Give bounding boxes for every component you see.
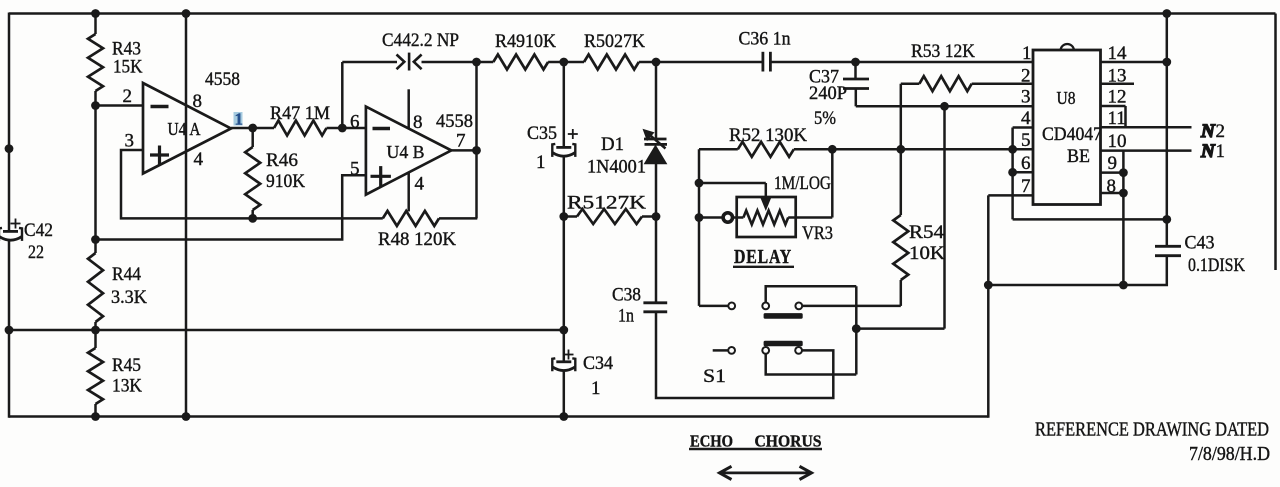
- junction U4A output node: [248, 124, 257, 133]
- junction R43 bottom / U4A pin2: [91, 101, 100, 110]
- junction U8 pin9 / right bus: [1119, 168, 1128, 177]
- label C35 plus: [568, 129, 578, 139]
- junction right bus / 285 rail: [1119, 281, 1128, 290]
- junction C37 top node: [851, 58, 860, 67]
- junction U8 pin8 / right bus: [1119, 189, 1128, 198]
- junction top bus / U4A rail: [182, 9, 191, 18]
- resistor R45: [88, 348, 103, 417]
- junction R43/R44 bias node: [91, 235, 100, 244]
- svg-text:240P: 240P: [809, 83, 847, 104]
- junction U4B pin6 node: [338, 124, 347, 133]
- svg-text:C36 1n: C36 1n: [739, 29, 791, 50]
- wire U8 pin12 stub: [1101, 106, 1126, 127]
- svg-text:5%: 5%: [814, 108, 836, 129]
- wire U8 pin5 stub: [1013, 148, 1033, 151]
- resistor R44: [88, 253, 103, 348]
- svg-text:2: 2: [1216, 121, 1226, 142]
- capacitor C43: [1155, 246, 1181, 255]
- label U4A pin3: [125, 130, 135, 151]
- svg-text:6: 6: [1021, 153, 1031, 174]
- capacitor C36: [763, 52, 771, 72]
- svg-text:C442.2 NP: C442.2 NP: [382, 30, 459, 51]
- svg-text:ECHO: ECHO: [690, 432, 733, 451]
- wire C36 to U8 pin1: [770, 61, 1033, 64]
- svg-text:CD4047: CD4047: [1042, 124, 1102, 145]
- svg-text:10: 10: [1108, 131, 1127, 152]
- svg-text:1N4001: 1N4001: [587, 157, 646, 178]
- label C38 1n: [612, 284, 641, 326]
- junction pin3 line / S1 drop: [940, 102, 949, 111]
- wire S1 top contact jumper: [766, 286, 857, 302]
- wire U4B pin5 bias: [96, 175, 366, 239]
- junction VR3 wiper tap: [695, 179, 704, 188]
- label U8 pin9: [1108, 153, 1118, 174]
- node N2 label: [1200, 121, 1225, 142]
- junction R46 bottom / feedback line: [248, 214, 257, 223]
- svg-text:0.1DISK: 0.1DISK: [1188, 255, 1245, 276]
- svg-text:15K: 15K: [113, 57, 143, 78]
- label 4558 (U4B): [436, 111, 473, 132]
- wire U4A pin2 input: [96, 104, 145, 107]
- svg-text:22: 22: [28, 242, 44, 263]
- junction R51 right / D1 rail: [652, 212, 661, 221]
- svg-text:910K: 910K: [266, 171, 305, 192]
- label D1 1N4001: [587, 157, 646, 178]
- switch S1 top throw contacts: [762, 303, 802, 319]
- svg-text:4: 4: [1021, 108, 1031, 129]
- junction group bus / C43 rail: [1162, 215, 1171, 224]
- wire VR3 left rail: [698, 149, 701, 306]
- wire top row to C36: [656, 61, 763, 64]
- junction C34 / bottom bus: [559, 412, 568, 421]
- label R49 10K: [495, 31, 556, 52]
- junction R44/R45 node: [91, 326, 100, 335]
- wire U8 pin14: [1101, 61, 1167, 64]
- wire U8 pins 10-9-8 bus: [1122, 151, 1125, 285]
- label reference drawing note: [1035, 420, 1270, 466]
- svg-text:8: 8: [413, 112, 423, 133]
- label R54 10K: [909, 222, 945, 264]
- svg-text:C43: C43: [1185, 233, 1215, 254]
- capacitor C34: [552, 358, 575, 371]
- svg-text:2: 2: [1021, 66, 1031, 87]
- wire U4B output: [451, 149, 476, 152]
- svg-text:C42: C42: [24, 220, 53, 241]
- svg-text:VR3: VR3: [802, 223, 833, 244]
- resistor R50: [564, 55, 656, 70]
- svg-text:4558: 4558: [205, 69, 240, 90]
- svg-text:9: 9: [1108, 153, 1118, 174]
- wire U8 pin7 drop: [987, 195, 990, 285]
- wire S1 riser x944: [943, 106, 946, 328]
- svg-text:3.3K: 3.3K: [111, 287, 147, 308]
- wire top supply bus: [9, 12, 1276, 15]
- node N1 label: [1200, 141, 1225, 162]
- label U4B pin5: [350, 159, 360, 180]
- junction U8 pin14 / C43 rail: [1162, 58, 1171, 67]
- label C42 22: [24, 220, 53, 263]
- resistor R49: [477, 55, 564, 70]
- junction top bus / R43: [91, 9, 100, 18]
- junction U8 pin5 / left bus: [1008, 145, 1017, 154]
- wire mid bias rail y330: [9, 329, 564, 332]
- wire U8 pin11 to N2: [1101, 126, 1192, 129]
- wire U4A power rail pin8/pin4: [185, 14, 188, 418]
- junction bias rail / C34 rail: [559, 326, 568, 335]
- wire U8 pin8 stub: [1101, 192, 1124, 195]
- capacitor C37: [843, 79, 869, 89]
- label U4A pin2: [123, 86, 133, 107]
- svg-text:C35: C35: [527, 123, 557, 144]
- svg-text:U4 B: U4 B: [387, 142, 425, 162]
- resistor R47: [274, 121, 366, 136]
- svg-text:5: 5: [1021, 130, 1031, 151]
- junction R51 left node: [559, 212, 568, 221]
- wire C44 left leg: [342, 62, 397, 128]
- svg-text:R46: R46: [266, 150, 298, 171]
- label U8 pin14: [1108, 43, 1128, 64]
- wire U4A output: [231, 127, 274, 130]
- label R45 13K: [112, 355, 142, 397]
- svg-text:7: 7: [456, 130, 466, 151]
- wire U8 left group bus: [1011, 128, 1014, 220]
- wire C43 rail upper: [1166, 14, 1169, 247]
- wire C38 bottom to switch: [656, 312, 833, 398]
- svg-text:BE: BE: [1067, 146, 1090, 167]
- resistor R53: [901, 76, 1033, 149]
- label U4B pin6: [350, 112, 360, 133]
- label U8 pin11: [1108, 108, 1126, 129]
- label C34 plus: [564, 350, 574, 360]
- label R51 27K: [567, 193, 646, 214]
- junction VR3 left terminal tap: [695, 213, 704, 222]
- svg-text:3: 3: [125, 130, 135, 151]
- wire C37 lower leg to U8 pin3: [856, 89, 1033, 107]
- resistor R51: [564, 209, 656, 224]
- svg-text:4: 4: [415, 174, 425, 195]
- resistor R46: [245, 128, 260, 219]
- junction R50 / D1 node: [652, 58, 661, 67]
- svg-text:R52 130K: R52 130K: [729, 125, 807, 146]
- svg-text:R54: R54: [909, 222, 945, 243]
- svg-text:R45: R45: [112, 355, 141, 376]
- resistor R52: [699, 142, 1011, 157]
- wire S1 top pole feed: [699, 305, 728, 308]
- label CD4047: [1042, 124, 1102, 145]
- label U8 pin8: [1107, 176, 1117, 197]
- svg-text:R44: R44: [112, 264, 141, 285]
- svg-text:1: 1: [1022, 43, 1032, 64]
- label R48 120K: [378, 229, 456, 250]
- label C42 plus: [11, 219, 21, 229]
- svg-text:R5127K: R5127K: [567, 193, 646, 214]
- wire U4B output to top row: [475, 62, 478, 150]
- wire U8 pin9 stub: [1101, 171, 1124, 174]
- resistor R54: [893, 149, 908, 306]
- wire C44 right leg: [422, 61, 477, 64]
- label U8: [1057, 88, 1076, 108]
- junction R45 / bottom bus: [91, 412, 100, 421]
- svg-text:1: 1: [235, 110, 244, 129]
- svg-text:6: 6: [350, 112, 360, 133]
- op-amp U4B: [366, 107, 451, 195]
- capacitor C38: [643, 303, 667, 312]
- wire S1 riser bottom hook: [766, 354, 857, 375]
- label U8 pin13: [1108, 66, 1127, 87]
- wire S1 crosslink to x944: [856, 327, 944, 330]
- label S1: [703, 366, 726, 387]
- label VR3: [802, 223, 833, 244]
- wire VR3 right riser: [788, 149, 832, 217]
- svg-text:C34: C34: [583, 353, 613, 374]
- junction VR3 right riser / R52: [828, 145, 837, 154]
- wire D1 lower leg: [655, 162, 658, 303]
- diode D1: [643, 129, 668, 164]
- label R44 3.3K: [111, 264, 147, 308]
- label R43 15K: [112, 39, 143, 78]
- junction pin7 drop / 285 rail: [984, 281, 993, 290]
- svg-text:4558: 4558: [436, 111, 473, 132]
- label C35 1: [527, 123, 557, 173]
- label U8 pin12: [1108, 87, 1127, 108]
- wire U8 pin4 stub: [1013, 126, 1033, 129]
- label U8 pin2: [1021, 66, 1031, 87]
- wire U8 group bus to C43 rail: [1013, 218, 1167, 221]
- svg-text:11: 11: [1108, 108, 1126, 129]
- wire R54 bottom to switch: [802, 305, 901, 308]
- wire C43 bottom hook: [988, 256, 1167, 285]
- capacitor C35: [552, 144, 575, 157]
- svg-text:U8: U8: [1057, 88, 1076, 108]
- label ECHO CHORUS: [689, 432, 822, 451]
- svg-text:1: 1: [1216, 141, 1226, 162]
- wire C35 rail upper: [563, 62, 566, 148]
- junction C44 / R49 node: [472, 58, 481, 67]
- echo-chorus double arrow: [720, 466, 812, 479]
- label U8 pin4: [1021, 108, 1031, 129]
- svg-text:D1: D1: [601, 134, 624, 155]
- wire S1 mid riser x856: [855, 286, 858, 374]
- svg-text:1M/LOG: 1M/LOG: [774, 173, 831, 194]
- label U8 pin1: [1022, 43, 1032, 64]
- resistor R43: [88, 14, 103, 106]
- svg-text:R47 1M: R47 1M: [270, 103, 330, 124]
- label R52 130K: [729, 125, 807, 146]
- label R53 12K: [911, 41, 975, 62]
- label U8 pin5: [1021, 130, 1031, 151]
- wire right edge drop from top bus: [1274, 14, 1277, 271]
- label VR3 1M/LOG: [774, 173, 831, 194]
- switch S1 bottom throw contacts: [762, 341, 802, 354]
- junction node input rail: [5, 144, 14, 153]
- wire C37 upper leg: [854, 62, 857, 80]
- label U4A pin8: [193, 91, 203, 112]
- junction S1 riser / crosslink: [852, 324, 861, 333]
- wire left input rail upper (to C42): [8, 13, 11, 233]
- capacitor C42: [0, 228, 22, 241]
- junction R53/R54 node: [896, 145, 905, 154]
- label R47 1M: [270, 103, 330, 124]
- wire R43 to R44: [94, 104, 97, 254]
- svg-text:U4 A: U4 A: [168, 119, 201, 139]
- svg-text:7/8/98/H.D: 7/8/98/H.D: [1189, 444, 1270, 465]
- svg-text:1: 1: [591, 378, 601, 399]
- svg-text:C38: C38: [612, 284, 641, 305]
- wire U8 pin6 stub: [1013, 171, 1033, 174]
- label C44 2.2 NP: [382, 30, 459, 51]
- label U4A pin1 output highlighted: [234, 110, 244, 129]
- label BE: [1067, 146, 1090, 167]
- svg-text:4: 4: [194, 149, 204, 170]
- svg-text:7: 7: [1021, 176, 1031, 197]
- junction bias rail left end: [5, 326, 14, 335]
- svg-text:2: 2: [123, 86, 133, 107]
- svg-text:DELAY: DELAY: [734, 247, 792, 268]
- svg-text:N: N: [1200, 121, 1216, 142]
- label C37 240P 5%: [809, 67, 847, 130]
- wire U4A pin3 feedback: [121, 150, 383, 218]
- label U4A: [168, 119, 201, 139]
- potentiometer VR3: [699, 183, 796, 237]
- svg-text:1: 1: [536, 152, 546, 173]
- junction U8 pin6 / left bus: [1008, 168, 1017, 177]
- svg-text:13K: 13K: [112, 376, 142, 397]
- svg-text:8: 8: [193, 91, 203, 112]
- label U4B pin4: [415, 174, 425, 195]
- capacitor C44: [397, 53, 422, 71]
- svg-text:REFERENCE DRAWING DATED: REFERENCE DRAWING DATED: [1035, 420, 1269, 441]
- label U4B: [387, 142, 425, 162]
- label C43 0.1DISK: [1185, 233, 1246, 276]
- wire U8 pin10 to N1: [1101, 149, 1192, 152]
- label R50 27K: [584, 31, 645, 52]
- wire U8 pin7: [988, 194, 1033, 197]
- wire bottom ground bus: [9, 415, 988, 418]
- switch S1 bottom pole stub: [713, 347, 735, 354]
- junction R49/R50 node: [559, 58, 568, 67]
- label U4B pin8: [413, 112, 423, 133]
- svg-text:R5027K: R5027K: [584, 31, 645, 52]
- resistor R48: [383, 151, 478, 226]
- label U4A pin4: [194, 149, 204, 170]
- label 4558 (U4A): [205, 69, 240, 90]
- svg-text:3: 3: [1021, 87, 1031, 108]
- svg-text:R48 120K: R48 120K: [378, 229, 456, 250]
- svg-text:CHORUS: CHORUS: [755, 432, 822, 451]
- wire U4B pin4 stub: [407, 173, 410, 212]
- wire D1 upper leg: [655, 62, 658, 140]
- label U8 pin3: [1021, 87, 1031, 108]
- wire U8 pin13 stub: [1101, 82, 1135, 85]
- label U4B pin7: [456, 130, 466, 151]
- label U8 pin6: [1021, 153, 1031, 174]
- junction bottom bus / U4A rail: [182, 412, 191, 421]
- op-amp U4A: [143, 83, 231, 174]
- svg-text:S1: S1: [703, 366, 726, 387]
- switch S1 top pole contact: [728, 303, 735, 310]
- svg-text:N: N: [1200, 141, 1216, 162]
- label R46 910K: [266, 150, 305, 192]
- label D1: [601, 134, 624, 155]
- wire VR3 wiper feed: [699, 182, 766, 185]
- svg-text:R4910K: R4910K: [495, 31, 556, 52]
- wire C35 to C34 rail: [563, 155, 566, 362]
- wire C34 to bottom bus: [563, 370, 566, 417]
- label U8 pin10: [1108, 131, 1127, 152]
- IC U8 outline: [1033, 44, 1101, 204]
- wire pin7 drop to bottom bus: [987, 285, 990, 418]
- junction U4B output node: [472, 146, 481, 155]
- label C34 1: [583, 353, 613, 399]
- svg-text:10K: 10K: [909, 243, 945, 264]
- svg-text:12: 12: [1108, 87, 1127, 108]
- wire U4B pin8 stub: [407, 89, 410, 128]
- wire left input rail lower (C42 to bottom): [8, 239, 11, 418]
- label C36 1n: [739, 29, 791, 50]
- label DELAY: [733, 247, 794, 268]
- svg-text:1n: 1n: [618, 306, 634, 327]
- junction top bus / C43 rail: [1162, 9, 1171, 18]
- label U8 pin7: [1021, 176, 1031, 197]
- svg-text:R53 12K: R53 12K: [911, 41, 975, 62]
